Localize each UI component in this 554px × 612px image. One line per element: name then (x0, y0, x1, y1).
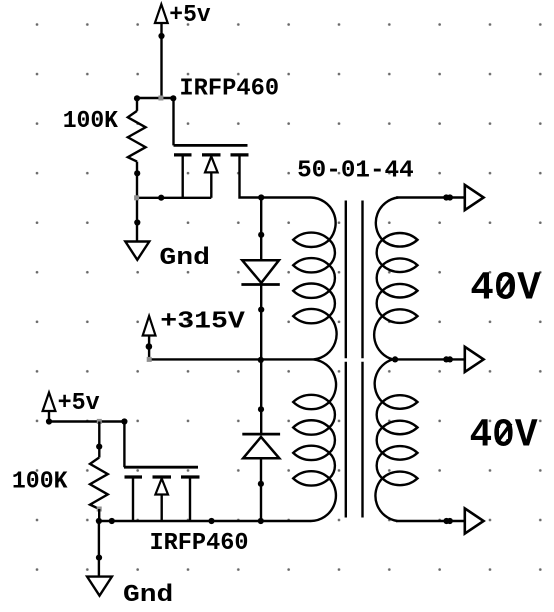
node dot D2 cathode (258, 406, 264, 412)
junction marker gray (+315V corner) (147, 357, 152, 362)
transistor IRFP460 (bottom) (124, 467, 200, 521)
label +315V (160, 308, 245, 335)
node dot +315V lead (146, 343, 153, 350)
node dot resistor bottom (top) (134, 170, 140, 176)
transformer secondary winding (bottom) (375, 359, 418, 521)
svg-text:100K: 100K (63, 108, 119, 135)
label +5v (top) (169, 2, 210, 29)
junction dot secondary center tap (392, 356, 398, 362)
wire +315V lead (149, 336, 314, 360)
node dot bottom rail c (208, 518, 214, 524)
wire diode chain lower (260, 359, 262, 434)
wire gate lead vertical (top) (172, 98, 174, 145)
node dot diode D1 anode (258, 232, 264, 238)
diode D2 (pointing up) (242, 434, 280, 458)
wire resistor top lead (bottom) (98, 422, 100, 458)
wire gate junction horizontal (top) (137, 97, 174, 99)
svg-text:+5v: +5v (58, 390, 100, 417)
wire +5v to gate junction (top) (160, 23, 162, 98)
wire D2 anode to bottom rail (260, 458, 262, 521)
node dot gnd lead (top) (134, 219, 140, 225)
svg-text:+315V: +315V (160, 308, 245, 335)
label 100K (top) (63, 108, 119, 135)
label 100K (bottom) (12, 469, 68, 496)
label +5v (bottom) (58, 390, 100, 417)
node dot source rail (top) (158, 195, 164, 201)
output arrow bottom (465, 508, 484, 533)
svg-text:IRFP460: IRFP460 (179, 75, 279, 102)
node dot D2 anode (258, 481, 264, 487)
wire secondary bottom output (396, 520, 465, 522)
wire diode chain upper (260, 198, 262, 261)
diode D1 (pointing down) (241, 260, 279, 284)
label 40V (bottom) (470, 414, 538, 459)
label 50-01-44 (transformer) (297, 158, 414, 185)
wire drain to transformer (top) (240, 156, 312, 198)
node dot resistor top (top) (134, 95, 140, 101)
label IRFP460 (bottom) (150, 530, 249, 557)
wire +5v rail (bottom) (49, 411, 124, 422)
label Gnd (bottom) (123, 582, 173, 609)
output arrow top (465, 185, 484, 210)
node dot D1 cathode (258, 307, 264, 313)
node dots secondary bottom output (443, 518, 453, 524)
svg-text:100K: 100K (12, 469, 68, 496)
svg-text:IRFP460: IRFP460 (150, 530, 249, 557)
power flag +5v (top) (155, 4, 168, 23)
ground symbol (top) (125, 242, 149, 260)
svg-text:50-01-44: 50-01-44 (297, 158, 414, 185)
junction marker gray (bottom resistor) (97, 507, 102, 512)
node dots secondary mid output (443, 356, 453, 362)
transformer core lines (346, 201, 363, 518)
svg-text:+5v: +5v (169, 2, 210, 29)
wire secondary top output (396, 196, 465, 198)
wire source rail (bottom) (99, 520, 311, 522)
label Gnd (top) (159, 245, 210, 272)
power flag +315V (143, 316, 156, 336)
node dot gnd lead (bottom) (96, 555, 102, 561)
transformer secondary winding (top) (374, 198, 417, 360)
node dot gate lead top (bottom) (121, 418, 127, 424)
output arrow middle (465, 347, 484, 372)
wire secondary center tap output (394, 358, 465, 360)
node dot gate lead top (top) (170, 95, 176, 101)
svg-text:Gnd: Gnd (159, 245, 210, 272)
wire source rail (top) (137, 197, 212, 199)
junction dot bottom rail x diode chain (258, 518, 264, 524)
wire drain lead (bottom) (189, 479, 191, 522)
junction dot drain node (top) (258, 194, 264, 200)
transformer primary winding (bottom) (293, 359, 336, 521)
node dot +5v corner (bottom) (46, 418, 52, 424)
resistor 100K (top) (128, 111, 146, 162)
junction marker gray (top gate junction) (158, 96, 163, 101)
wire gate lead vertical (bottom) (123, 422, 125, 468)
junction marker gray (top source rail) (134, 195, 139, 200)
junction dot on +5v wire (top) (158, 33, 164, 39)
node dot resistor top (bottom) (96, 444, 102, 450)
wire resistor bottom lead (bottom) (98, 509, 100, 521)
wire gnd lead (bottom) (98, 521, 100, 577)
power flag +5v (bottom) (43, 393, 56, 412)
resistor 100K (bottom) (90, 458, 108, 510)
label 40V (top) (470, 267, 541, 312)
ground symbol (bottom) (87, 577, 112, 596)
transistor IRFP460 (top) (174, 145, 249, 197)
wire resistor leads (top) (136, 98, 138, 242)
junction marker gray (bottom +5v rail) (97, 419, 102, 424)
label IRFP460 (top) (179, 75, 279, 102)
wire D1 cathode to +315V rail (260, 285, 262, 360)
node dot bottom rail a (96, 518, 102, 524)
node dots secondary top output (443, 194, 453, 200)
transformer primary winding (top) (293, 198, 336, 360)
junction dot +315V rail x diode chain (258, 357, 264, 363)
node dot bottom rail b (109, 518, 115, 524)
svg-text:Gnd: Gnd (123, 582, 173, 607)
